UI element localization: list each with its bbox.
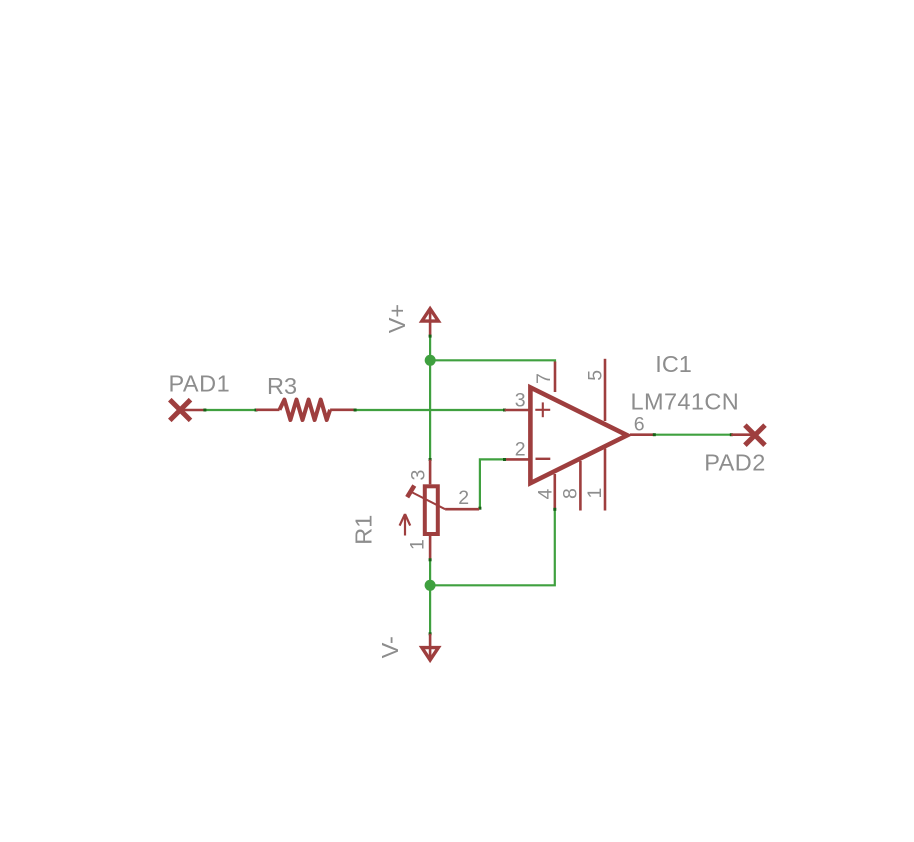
wire V+ to node A xyxy=(429,335,432,361)
svg-text:R1: R1 xyxy=(350,515,376,545)
pad PAD1 xyxy=(170,400,205,421)
svg-text:6: 6 xyxy=(634,414,645,436)
svg-text:PAD1: PAD1 xyxy=(169,371,231,397)
adjust arrow xyxy=(404,515,406,536)
svg-text:V+: V+ xyxy=(384,304,410,333)
pin 7 xyxy=(554,362,557,393)
plus mark (pin 3 input) xyxy=(535,409,550,411)
pin 8 xyxy=(579,461,582,511)
svg-text:4: 4 xyxy=(534,489,556,500)
svg-text:2: 2 xyxy=(515,439,526,461)
wire node A to IC1 pin 7 xyxy=(430,360,555,362)
pad PAD2 xyxy=(731,425,765,445)
pin 3 (trimmer top) xyxy=(429,460,432,485)
pin 2 (wiper lead) xyxy=(445,508,479,511)
pin 3 xyxy=(505,409,529,412)
junction node A xyxy=(425,355,436,366)
svg-text:PAD2: PAD2 xyxy=(704,450,766,476)
svg-text:1: 1 xyxy=(407,539,429,550)
svg-text:2: 2 xyxy=(458,487,469,509)
op-amp body xyxy=(530,388,627,484)
pin 1 (trimmer bottom) xyxy=(429,536,432,559)
supply V+ xyxy=(422,309,439,336)
pin 1 xyxy=(604,449,607,511)
pin 6 xyxy=(630,433,654,436)
svg-text:LM741CN: LM741CN xyxy=(631,389,740,415)
supply V- xyxy=(422,634,439,660)
svg-text:3: 3 xyxy=(515,390,526,412)
pin 5 xyxy=(604,359,607,421)
resistor R3 xyxy=(256,400,355,420)
wire IC1 pin 6 to PAD2 xyxy=(653,433,733,436)
pin 4 xyxy=(553,474,556,509)
svg-text:7: 7 xyxy=(533,373,555,384)
wiper crossbar xyxy=(407,486,414,498)
svg-text:5: 5 xyxy=(585,370,607,381)
svg-text:IC1: IC1 xyxy=(655,351,692,377)
wire R1 pin 1 to node B xyxy=(429,558,432,585)
wire PAD1 to R3 xyxy=(203,409,257,412)
wire IC1 pin 2 to R1 wiper xyxy=(478,458,506,510)
svg-text:R3: R3 xyxy=(267,373,297,399)
wiper diagonal xyxy=(412,493,445,510)
pin 2 xyxy=(505,458,529,461)
trimmer R1 xyxy=(400,460,480,560)
junction node B xyxy=(425,580,436,591)
wire node B to IC1 pin 4 xyxy=(430,508,556,586)
wire node A down to R1 pin 3 xyxy=(429,360,432,461)
op-amp IC1 xyxy=(505,359,654,511)
svg-text:1: 1 xyxy=(584,488,606,499)
minus mark (pin 2 input) xyxy=(536,458,551,460)
svg-text:8: 8 xyxy=(560,488,582,499)
svg-text:V-: V- xyxy=(377,636,403,658)
wire R3 to IC1 pin 3 xyxy=(354,409,506,412)
trimmer body xyxy=(425,486,438,534)
svg-text:3: 3 xyxy=(408,470,430,481)
wire node B to V- xyxy=(429,585,432,635)
